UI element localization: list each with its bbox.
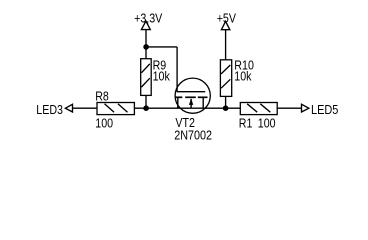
svg-text:+3,3V: +3,3V xyxy=(134,10,162,25)
svg-text:100: 100 xyxy=(95,116,113,131)
svg-text:10k: 10k xyxy=(153,69,171,84)
svg-text:+5V: +5V xyxy=(217,10,237,25)
svg-text:2N7002: 2N7002 xyxy=(174,128,212,143)
svg-text:LED5: LED5 xyxy=(311,102,338,117)
svg-text:R1: R1 xyxy=(239,116,253,131)
svg-text:10k: 10k xyxy=(234,69,252,84)
svg-text:LED3: LED3 xyxy=(36,102,63,117)
svg-text:100: 100 xyxy=(258,116,276,131)
svg-text:R8: R8 xyxy=(95,88,109,103)
